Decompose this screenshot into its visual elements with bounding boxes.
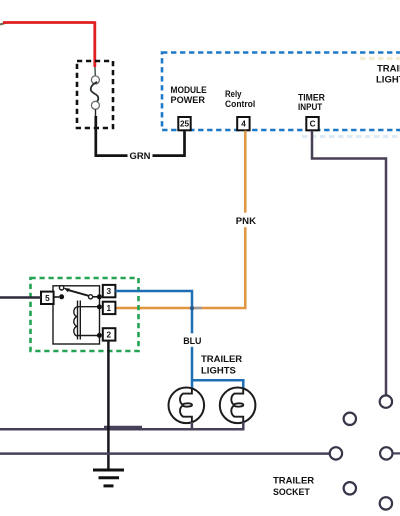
wire: socket pin 4 stub [393, 452, 400, 454]
svg-text:TRAILER: TRAILER [273, 476, 314, 487]
svg-text:2: 2 [107, 330, 112, 339]
socket pin 5 [344, 482, 356, 494]
socket pin 4 [380, 447, 392, 459]
svg-text:INPUT: INPUT [298, 102, 322, 113]
fuse F1 enclosure [77, 61, 113, 128]
wire BLU (blue) [115, 291, 243, 389]
wire: bulb return bus (dark) [0, 422, 245, 429]
svg-text:5: 5 [45, 294, 50, 303]
svg-text:1: 1 [107, 304, 112, 313]
svg-text:3: 3 [107, 287, 112, 296]
terminal C [306, 117, 318, 130]
node: crossing blob at blue/orange [190, 306, 194, 310]
label TIMER INPUT [298, 93, 325, 114]
svg-text:GRN: GRN [130, 151, 151, 162]
svg-text:SOCKET: SOCKET [273, 487, 310, 498]
socket pin 3 (ground) [330, 447, 342, 459]
socket pin 6 [380, 497, 392, 509]
ground [93, 470, 124, 486]
svg-text:TRAILER: TRAILER [377, 63, 400, 74]
fuse F1 [91, 67, 100, 117]
junction dot (switch pole) [59, 294, 64, 299]
label Rely Control [225, 89, 255, 110]
wire GRN (black) [95, 116, 186, 156]
terminal 25 [178, 117, 190, 130]
junction dot (terminal 2 / coil bottom) [97, 333, 102, 338]
svg-text:LIGHTS: LIGHTS [376, 74, 400, 85]
bulb L2 [220, 388, 256, 424]
svg-text:Control: Control [225, 99, 255, 110]
wire: 12V feed (red) [3, 21, 95, 67]
junction dot (terminal 3) [97, 294, 102, 299]
label TRAILER LIGHTS (module, clipped at edge) [376, 63, 400, 85]
wire: to relay terminal 5 (dark) [0, 296, 41, 299]
relay switch [52, 286, 99, 299]
svg-text:4: 4 [241, 120, 246, 129]
module M1 enclosure (blue dashed) [162, 53, 400, 131]
wire: relay terminal 2 to ground (black) [107, 341, 110, 470]
wire: bus overlap segment [104, 426, 142, 430]
relay coil [74, 301, 100, 340]
ghost dashes (artifact, top right) [360, 57, 400, 61]
svg-text:LIGHTS: LIGHTS [201, 366, 236, 377]
terminal 2 [103, 328, 116, 340]
svg-text:POWER: POWER [171, 95, 206, 106]
label TRAILER SOCKET [273, 476, 314, 499]
wire: ground bus to socket (dark) [0, 452, 330, 455]
svg-text:TRAILER: TRAILER [201, 354, 242, 365]
terminal 3 [103, 285, 116, 297]
terminal 5 [41, 292, 54, 304]
junction dot (terminal 1 / coil top) [97, 304, 102, 309]
svg-text:25: 25 [180, 120, 190, 129]
relay K1 body [53, 286, 100, 344]
svg-text:PNK: PNK [236, 216, 256, 227]
svg-text:BLU: BLU [183, 336, 201, 347]
relay K1 enclosure (green dashed) [31, 278, 139, 351]
wire: gray segment on PNK right of crossing [195, 307, 203, 310]
terminal 4 [237, 117, 249, 130]
ghost dashes (artifact, right of module bottom) [302, 135, 400, 138]
label TRAILER LIGHTS (bulbs) [201, 354, 242, 377]
socket pin 2 [344, 413, 356, 425]
wire PNK (orange) [116, 131, 245, 308]
label GRN [128, 149, 153, 162]
label MODULE POWER [171, 85, 207, 106]
bulb L1 [169, 388, 205, 424]
socket pin 1 (timer) [380, 395, 392, 407]
svg-text:C: C [310, 120, 316, 129]
node: battery feed stub [0, 23, 7, 25]
terminal 1 [103, 302, 116, 314]
wire: timer input to trailer socket (dark) [312, 131, 386, 396]
